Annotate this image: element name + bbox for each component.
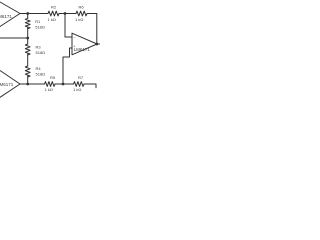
svg-text:518Ω: 518Ω <box>35 25 45 30</box>
wire <box>65 14 72 38</box>
wire <box>55 83 74 85</box>
node A <box>26 12 29 15</box>
resistor R2 <box>48 11 59 16</box>
resistor R4 <box>25 66 30 77</box>
node B <box>64 12 67 15</box>
svg-text:R6: R6 <box>79 5 85 10</box>
svg-text:LM6171: LM6171 <box>0 82 14 87</box>
wire <box>27 28 29 44</box>
svg-text:1 kΩ: 1 kΩ <box>48 17 56 22</box>
resistor R7 <box>74 82 84 87</box>
wire <box>84 84 96 88</box>
wire <box>59 13 76 15</box>
wire <box>27 54 29 66</box>
wire <box>96 14 98 45</box>
wire <box>87 13 97 15</box>
svg-text:R4: R4 <box>36 66 42 71</box>
node OUT <box>95 43 98 46</box>
svg-text:1 kΩ: 1 kΩ <box>75 17 83 22</box>
svg-text:R7: R7 <box>78 75 84 80</box>
wire <box>0 37 28 39</box>
resistor R1 <box>25 18 30 29</box>
svg-text:1 kΩ: 1 kΩ <box>45 87 53 92</box>
node D <box>62 83 65 86</box>
svg-text:R5: R5 <box>50 75 56 80</box>
resistor R6 <box>76 11 87 16</box>
svg-text:LM6171: LM6171 <box>74 47 91 52</box>
svg-text:R1: R1 <box>35 19 41 24</box>
node M <box>26 37 29 40</box>
resistor R3 <box>25 44 30 55</box>
wire <box>20 13 48 15</box>
wire <box>27 76 29 84</box>
op-amp U2 <box>0 71 20 98</box>
op-amp U1 <box>0 2 20 27</box>
svg-text:1 kΩ: 1 kΩ <box>73 87 81 92</box>
wire <box>20 83 45 85</box>
svg-text:R3: R3 <box>36 45 42 50</box>
svg-text:518Ω: 518Ω <box>36 72 46 77</box>
wire <box>97 43 100 45</box>
op-amp U3 <box>72 33 97 55</box>
node C <box>26 83 29 86</box>
svg-text:518Ω: 518Ω <box>36 50 46 55</box>
resistor R5 <box>45 82 56 87</box>
wire <box>63 48 72 84</box>
svg-text:LM6171: LM6171 <box>0 14 12 19</box>
wire <box>27 14 29 19</box>
svg-text:R2: R2 <box>51 5 57 10</box>
